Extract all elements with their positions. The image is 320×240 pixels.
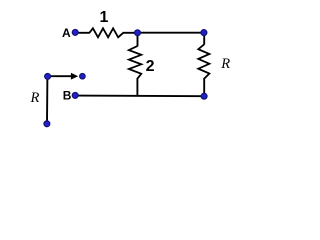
svg-text:R: R [30, 90, 40, 106]
node junction (R1/R2 top) [135, 30, 141, 36]
wire resistor R to bottom right node [203, 78, 205, 96]
node top right [201, 30, 207, 36]
svg-text:A: A [62, 26, 71, 40]
svg-text:B: B [63, 88, 72, 102]
wire A to R1 [76, 32, 90, 34]
wire R2 to bottom [136, 78, 138, 96]
resistor R (right, vertical) [198, 44, 209, 78]
node unplaced R top [45, 73, 51, 79]
node unplaced R bottom [44, 121, 50, 127]
node bottom right [201, 93, 207, 99]
svg-text:2: 2 [146, 58, 155, 75]
node: arrow target terminal [80, 73, 86, 79]
node B [72, 92, 78, 98]
svg-text:1: 1 [100, 9, 109, 26]
wire R1 to junction [123, 32, 138, 34]
svg-text:R: R [220, 56, 230, 72]
wire bottom (B to bottom right node) [76, 95, 205, 98]
resistor R2 (value 2, vertical) [129, 46, 142, 79]
wire top (junction to right node) [138, 32, 205, 34]
unplaced resistor R (plain segment, lower left) [46, 76, 48, 123]
wire junction to R2 [137, 33, 139, 47]
resistor R1 (value 1, horizontal) [89, 28, 123, 37]
wire right node to resistor R [203, 33, 205, 45]
arrow (drag hint from unplaced R) [48, 75, 72, 77]
node A [72, 29, 78, 35]
